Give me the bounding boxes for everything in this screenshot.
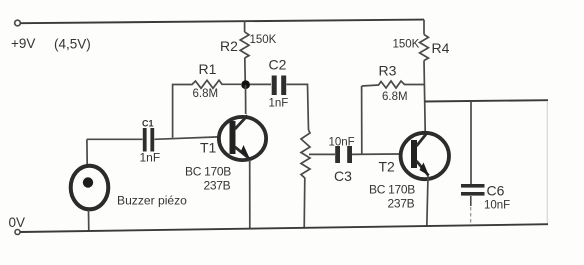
wire R1 leg to base junction xyxy=(172,137,174,139)
wire R3 left leg down to T2 base xyxy=(361,86,363,154)
svg-text:10nF: 10nF xyxy=(329,137,355,149)
resistor R1 xyxy=(173,61,241,137)
wire C6 bottom lead (faint) xyxy=(470,196,472,206)
svg-text:C1: C1 xyxy=(142,119,154,129)
wire right edge faint vertical xyxy=(546,101,548,224)
svg-text:R4: R4 xyxy=(432,40,450,56)
svg-text:BC 170B: BC 170B xyxy=(369,183,415,197)
wire collector branch to right xyxy=(425,100,548,101)
svg-text:1nF: 1nF xyxy=(140,151,161,165)
wire R2 top lead xyxy=(244,21,246,32)
capacitor C6 xyxy=(461,183,510,212)
capacitor C1 xyxy=(87,119,219,165)
svg-text:237B: 237B xyxy=(388,197,415,211)
svg-text:6.8M: 6.8M xyxy=(193,88,219,100)
svg-text:Buzzer piézo: Buzzer piézo xyxy=(117,194,187,208)
resistor R3 xyxy=(362,63,425,104)
svg-text:R3: R3 xyxy=(379,63,397,79)
svg-text:T2: T2 xyxy=(379,159,396,175)
svg-text:R1: R1 xyxy=(199,61,217,77)
svg-text:C3: C3 xyxy=(334,168,352,184)
svg-text:(4,5V): (4,5V) xyxy=(54,37,91,52)
resistor R4 xyxy=(393,35,450,61)
wire buzzer bottom xyxy=(88,210,90,231)
wire buzzer top xyxy=(86,139,88,164)
resistor R2 xyxy=(240,32,249,58)
svg-text:+9V: +9V xyxy=(11,36,35,51)
svg-text:1nF: 1nF xyxy=(269,98,289,110)
buzzer piezo xyxy=(71,166,187,210)
svg-text:R2: R2 xyxy=(220,38,238,54)
transistor T1 xyxy=(185,116,266,193)
svg-text:10nF: 10nF xyxy=(484,200,510,212)
wire node to T1 collector xyxy=(245,85,247,114)
svg-text:T1: T1 xyxy=(200,140,217,156)
svg-text:150K: 150K xyxy=(250,34,277,46)
svg-text:0V: 0V xyxy=(9,215,26,230)
wire top rail corner down to R4 xyxy=(423,20,425,35)
svg-text:C2: C2 xyxy=(269,57,287,73)
wire T1 emitter to rail xyxy=(249,160,251,229)
wire bottom rail xyxy=(20,224,548,232)
transistor T2 xyxy=(369,132,449,211)
capacitor C3 xyxy=(309,137,400,185)
svg-text:BC 170B: BC 170B xyxy=(185,165,231,179)
svg-text:237B: 237B xyxy=(204,179,231,193)
wire T2 emitter to rail xyxy=(427,176,428,227)
resistor (unlabeled, middle) xyxy=(301,130,310,229)
wire R4 bottom to T2 collector xyxy=(424,61,425,132)
wire R2 bottom lead xyxy=(244,58,247,85)
svg-text:C6: C6 xyxy=(487,183,505,199)
capacitor C2 xyxy=(250,57,309,131)
svg-text:150K: 150K xyxy=(393,39,420,51)
terminal 0V xyxy=(15,230,20,235)
node A junction dot xyxy=(241,80,250,89)
wire top rail xyxy=(21,20,425,24)
wire C6 top lead xyxy=(470,101,472,184)
svg-text:6.8M: 6.8M xyxy=(382,91,408,103)
terminal +9V xyxy=(15,20,21,26)
